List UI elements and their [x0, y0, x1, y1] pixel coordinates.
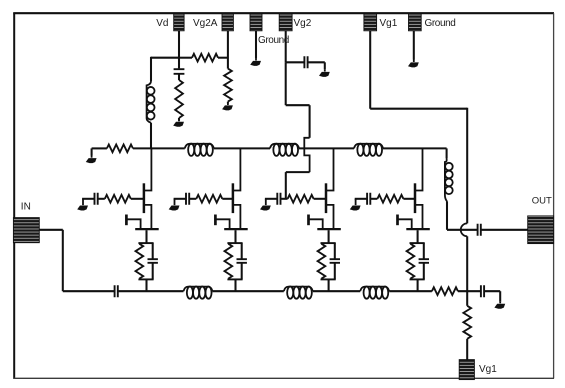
wire Vg1 pad down	[369, 31, 371, 109]
wire cap branch lower	[152, 263, 154, 280]
wire RC to gate line	[328, 279, 330, 291]
ground (pad 3)	[255, 58, 257, 61]
inductor L7 (gate line)	[284, 287, 313, 292]
resistor R1b (stage 1 source)	[136, 244, 144, 279]
wire cap branch lower	[423, 263, 425, 280]
wire C1 to R2	[178, 74, 180, 80]
wire IN down	[62, 230, 64, 291]
pad Vg1 (bottom)	[459, 360, 474, 380]
wire stub to cascode gate	[309, 219, 322, 228]
resistor R2 (Vd bypass)	[175, 80, 183, 118]
ground (pad 6)	[413, 60, 415, 63]
wire Q1b source down	[145, 230, 147, 243]
pad Vg2	[279, 13, 292, 30]
wire Vg2 pad down	[285, 31, 287, 63]
node Vd junction left wire	[151, 57, 179, 59]
wire cap branch upper	[423, 243, 425, 259]
wire RC bracket top	[410, 242, 425, 244]
wire Q4 source stub	[416, 205, 423, 230]
wire RC bracket top	[227, 242, 242, 244]
resistor R2a (stage 2 gate)	[196, 195, 222, 203]
capacitor C4b (stage 4 source)	[419, 259, 429, 263]
pad Vd	[174, 13, 184, 30]
wire R2a to gate	[222, 198, 233, 200]
wire Vg2 crossover jog	[304, 138, 309, 172]
svg-text:Vd: Vd	[156, 18, 168, 29]
wire C2a to R2a	[189, 198, 196, 200]
wire Vg2 to C2	[286, 61, 305, 63]
wire cap branch upper	[334, 243, 336, 259]
svg-text:Vg2A: Vg2A	[193, 18, 218, 29]
wire Vg2 feed to stage 3 gate	[285, 172, 287, 199]
wire stub to cascode gate	[398, 219, 411, 228]
ground (drain line termination)	[91, 148, 93, 155]
wire drain line corner down	[446, 148, 448, 158]
pad Ground (right)	[409, 13, 422, 30]
wire cap branch upper	[241, 243, 243, 259]
wire C4 to ground	[484, 290, 500, 292]
svg-text:Vg1: Vg1	[380, 18, 398, 29]
capacitor C5 (output DC block)	[478, 224, 481, 236]
transistor Q1b (stage 1 cascode FET channel)	[135, 228, 159, 230]
wire L1 to drain line	[150, 123, 152, 149]
wire IN pad right	[39, 229, 63, 231]
pad Ground (Vg2A side)	[250, 13, 262, 30]
wire Q3b source down	[328, 230, 330, 243]
wire RC to gate line	[145, 279, 147, 291]
wire drain term	[92, 147, 107, 149]
svg-text:Ground: Ground	[258, 35, 289, 46]
ground (stage 1 gate network)	[82, 199, 84, 200]
wire R4a to gate	[403, 198, 415, 200]
transistor Q2 (stage 2 main FET)	[232, 183, 235, 213]
wire IN to C3	[63, 290, 115, 292]
capacitor C1b (stage 1 source)	[148, 259, 158, 263]
inductor L8 (gate line)	[360, 287, 389, 292]
wire Q2b source down	[234, 230, 236, 243]
capacitor C3b (stage 3 source)	[330, 259, 340, 263]
capacitor C3 (input DC block)	[115, 285, 118, 297]
wire stub to cascode gate	[127, 219, 140, 228]
wire C2 to ground	[308, 61, 325, 63]
pad Vg2A	[222, 13, 233, 30]
resistor R3a (stage 3 gate)	[288, 195, 314, 203]
node stage 4 cascode gate stub	[396, 215, 399, 226]
capacitor C1a (stage 1 gate)	[95, 193, 98, 205]
resistor R6 (Vg1 bias)	[463, 306, 471, 339]
transistor Q3 (stage 3 main FET)	[325, 183, 328, 213]
transistor Q2b (stage 2 cascode FET channel)	[224, 228, 248, 230]
wire cap branch lower	[334, 263, 336, 280]
wire RC to gate line	[417, 279, 419, 291]
svg-text:Ground: Ground	[425, 18, 456, 29]
capacitor C1 (Vd bypass)	[174, 69, 185, 74]
wire gnd to C4a	[355, 198, 367, 200]
wire ground pad 3 down	[255, 31, 257, 58]
wire gate line seg 2	[213, 290, 284, 292]
wire drain line seg 4	[383, 147, 447, 149]
wire Q4b source down	[417, 230, 419, 243]
transistor Q4b (stage 4 cascode FET channel)	[406, 228, 430, 230]
svg-text:OUT: OUT	[532, 195, 552, 206]
resistor R1a (stage 1 gate)	[105, 195, 131, 203]
wire drain line seg 3	[299, 147, 354, 149]
ground (stage 4 gate network)	[355, 199, 357, 200]
resistor R5 (gate line termination)	[432, 287, 458, 295]
resistor R4b (stage 4 source)	[407, 244, 415, 279]
transistor Q1 (stage 1 main FET)	[143, 183, 146, 213]
resistor R4 (drain line termination)	[107, 145, 133, 153]
ground (below R3)	[227, 102, 229, 104]
inductor L1 (Vd drain-line choke)	[147, 81, 151, 123]
wire C4a to R4a	[370, 198, 377, 200]
pad IN	[13, 218, 39, 243]
wire Q3 drain stub	[327, 148, 334, 190]
wire Vg2 feed down	[285, 62, 287, 105]
wire gnd to C3a	[265, 198, 277, 200]
wire output node	[447, 229, 478, 231]
wire Q3 source stub	[327, 205, 334, 230]
pad OUT	[528, 216, 554, 244]
ground (stage 3 gate network)	[265, 199, 267, 200]
wire RC bracket top	[321, 242, 336, 244]
resistor R3b (stage 3 source)	[318, 244, 326, 279]
wire Vg1 feed to gate termination	[466, 236, 468, 291]
wire C5 to OUT pad	[481, 229, 528, 231]
wire Vd pad down	[178, 31, 180, 69]
wire Vg2A pad down	[227, 31, 229, 69]
wire R1 to Vg2A node	[218, 57, 228, 59]
capacitor C4 (gate termination bypass)	[481, 285, 484, 297]
resistor R4a (stage 4 gate)	[377, 195, 403, 203]
wire R6 to Vg1 pad	[466, 339, 468, 360]
capacitor C2 (Vg2 bypass)	[304, 56, 307, 68]
wire Vg1 feed down	[466, 108, 468, 224]
svg-text:Vg1: Vg1	[479, 364, 497, 375]
svg-text:IN: IN	[21, 201, 31, 212]
transistor Q4 (stage 4 main FET)	[414, 183, 417, 213]
wire RC bracket top	[138, 242, 153, 244]
wire C1a to R1a	[98, 198, 105, 200]
inductor L6 (gate line)	[184, 287, 213, 292]
wire gnd to C1a	[82, 198, 94, 200]
wire Vg1 hop over output line	[461, 223, 467, 236]
wire Vg2 feed down 2	[309, 105, 311, 138]
wire Vg2 feed left	[286, 171, 310, 173]
capacitor C2a (stage 2 gate)	[186, 193, 189, 205]
transistor Q3b (stage 3 cascode FET channel)	[317, 228, 341, 230]
wire cap branch upper	[152, 243, 154, 259]
wire C3a to R3a	[281, 198, 288, 200]
wire RC bracket bottom	[138, 278, 153, 280]
wire gate line seg 1	[118, 290, 184, 292]
wire ground pad 6 down	[413, 31, 415, 60]
pad Vg1 (top)	[364, 13, 377, 30]
resistor R2b (stage 2 source)	[225, 244, 233, 279]
inductor L5 (output coil)	[445, 158, 447, 201]
wire RC bracket bottom	[227, 278, 242, 280]
ground (gate termination)	[499, 291, 501, 302]
wire R5 to bias node	[458, 290, 481, 292]
wire Q1 drain stub	[145, 148, 152, 190]
wire Q1 source stub	[145, 205, 152, 230]
capacitor C3a (stage 3 gate)	[277, 193, 280, 205]
wire bias node down	[466, 291, 468, 306]
inductor L3 (drain line)	[270, 144, 299, 149]
node stage 3 cascode gate stub	[307, 215, 310, 226]
ground (stage 2 gate network)	[174, 199, 176, 200]
ground (after C2)	[324, 62, 326, 69]
wire RC bracket bottom	[321, 278, 336, 280]
inductor L2 (drain line)	[185, 144, 214, 149]
wire drain line seg 1	[133, 147, 185, 149]
wire Q4 drain stub	[416, 148, 423, 190]
node stage 1 cascode gate stub	[125, 215, 128, 226]
wire R1a to gate	[131, 198, 144, 200]
resistor R1 (Vd to Vg2A divider)	[192, 54, 218, 62]
svg-text:Vg2: Vg2	[294, 18, 312, 29]
wire stub to cascode gate	[216, 219, 229, 228]
wire Vg2 feed right	[286, 104, 310, 106]
wire Vd junction to R1	[179, 57, 192, 59]
wire Vd to choke coil	[150, 57, 152, 81]
wire Q2 source stub	[234, 205, 241, 230]
wire RC bracket bottom	[410, 278, 425, 280]
wire R3a to gate	[314, 198, 326, 200]
wire drain line seg 2	[214, 147, 270, 149]
ground (below R2)	[178, 118, 180, 121]
capacitor C2b (stage 2 source)	[237, 259, 247, 263]
capacitor C4a (stage 4 gate)	[367, 193, 370, 205]
wire Vg1 feed right	[370, 108, 467, 110]
wire RC to gate line	[234, 279, 236, 291]
wire gnd to C2a	[174, 198, 186, 200]
inductor L4 (drain line)	[354, 144, 383, 149]
wire L5 to output node	[446, 201, 448, 230]
wire gate line seg 3	[313, 290, 360, 292]
resistor R3 (Vg2A to ground)	[224, 69, 232, 102]
wire gate line seg 4	[389, 290, 432, 292]
node stage 2 cascode gate stub	[214, 215, 217, 226]
wire Q2 drain stub	[234, 148, 241, 190]
wire cap branch lower	[241, 263, 243, 280]
